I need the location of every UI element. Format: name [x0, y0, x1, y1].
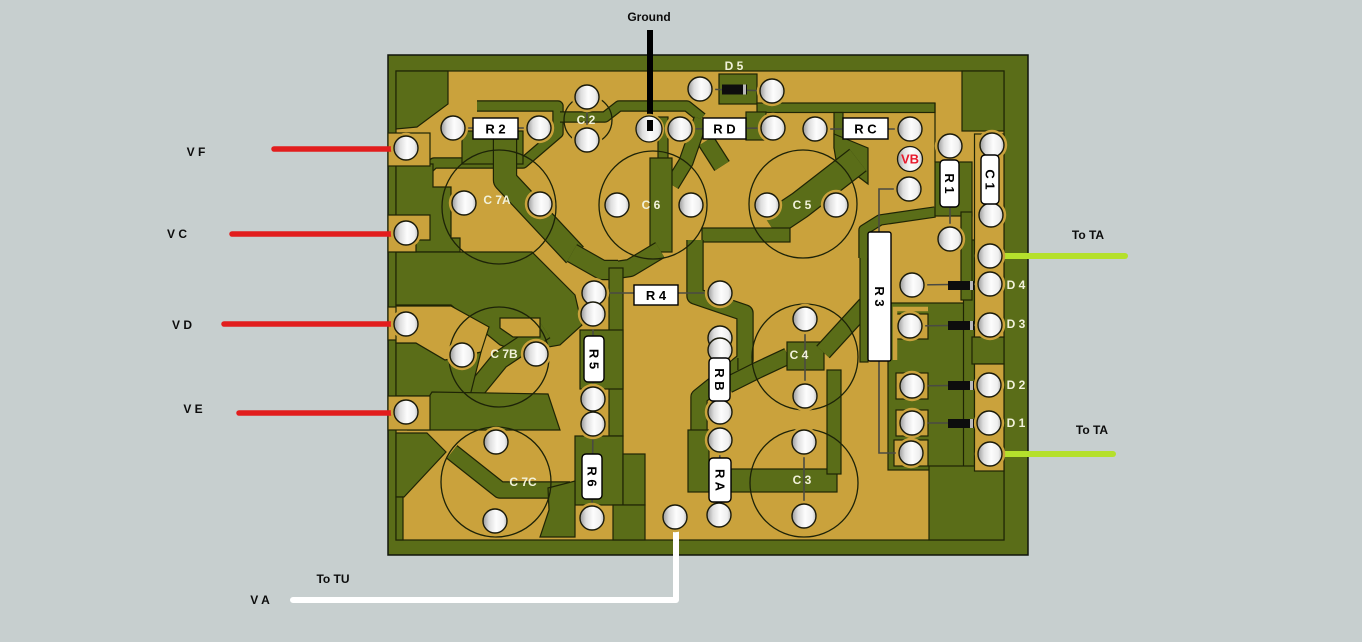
svg-text:To TA: To TA [1072, 228, 1105, 242]
svg-text:R 6: R 6 [585, 466, 600, 486]
svg-text:R 4: R 4 [646, 288, 667, 303]
svg-text:C 4: C 4 [790, 348, 809, 362]
svg-text:R 5: R 5 [587, 349, 602, 369]
svg-text:V D: V D [172, 318, 192, 332]
svg-text:C 5: C 5 [793, 198, 812, 212]
svg-text:V F: V F [187, 145, 206, 159]
svg-text:C 1: C 1 [983, 169, 998, 189]
svg-text:R C: R C [854, 122, 877, 137]
svg-text:VB: VB [901, 152, 919, 167]
svg-text:V E: V E [183, 402, 202, 416]
svg-text:V C: V C [167, 227, 187, 241]
svg-text:D 3: D 3 [1007, 317, 1026, 331]
svg-text:R D: R D [713, 122, 735, 137]
svg-text:C 7C: C 7C [509, 475, 537, 489]
svg-text:R 2: R 2 [485, 122, 505, 137]
svg-text:C 6: C 6 [642, 198, 661, 212]
svg-text:V A: V A [250, 593, 270, 607]
svg-text:R 3: R 3 [872, 286, 887, 306]
svg-text:D 5: D 5 [725, 59, 744, 73]
svg-text:Ground: Ground [627, 10, 670, 24]
svg-text:To TA: To TA [1076, 423, 1109, 437]
svg-text:R B: R B [712, 368, 727, 390]
svg-text:To TU: To TU [316, 572, 349, 586]
svg-text:D 2: D 2 [1007, 378, 1026, 392]
svg-text:R A: R A [713, 469, 728, 492]
svg-text:D 1: D 1 [1007, 416, 1026, 430]
svg-text:C 2: C 2 [577, 113, 596, 127]
svg-text:R 1: R 1 [942, 173, 957, 193]
svg-text:C 7B: C 7B [490, 347, 518, 361]
svg-text:C 7A: C 7A [483, 193, 511, 207]
svg-text:D 4: D 4 [1007, 278, 1026, 292]
svg-text:C 3: C 3 [793, 473, 812, 487]
